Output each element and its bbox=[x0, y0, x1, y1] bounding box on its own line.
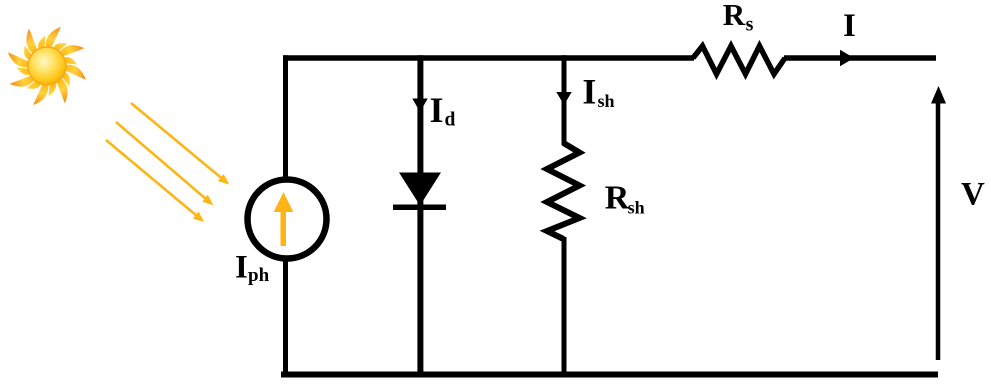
diode branch wire bbox=[417, 55, 423, 377]
svg-text:ph: ph bbox=[248, 265, 270, 286]
svg-text:sh: sh bbox=[598, 91, 615, 111]
svg-text:V: V bbox=[961, 176, 985, 212]
sun bbox=[8, 27, 86, 105]
sunlight ray arrow 3 bbox=[106, 140, 204, 222]
V arrowhead bbox=[931, 86, 946, 104]
Id arrowhead bbox=[412, 99, 427, 113]
svg-text:s: s bbox=[746, 14, 754, 36]
Ish arrowhead bbox=[556, 92, 571, 105]
left vertical wire upper bbox=[283, 55, 288, 181]
shunt branch wire lower bbox=[562, 237, 567, 378]
Iph orange arrow bbox=[274, 192, 294, 246]
svg-text:I: I bbox=[843, 8, 856, 44]
bottom wire bbox=[281, 372, 938, 378]
left vertical wire lower bbox=[283, 257, 288, 378]
svg-text:I: I bbox=[235, 250, 248, 286]
svg-text:R: R bbox=[723, 0, 746, 32]
sunlight ray arrow 2 bbox=[116, 122, 213, 205]
wire: top rail left segment (node between Iph, diode, Rsh and Rs) bbox=[283, 55, 694, 61]
V arrow line bbox=[936, 101, 941, 360]
svg-text:I: I bbox=[430, 90, 444, 130]
resistor Rs zigzag bbox=[693, 46, 785, 74]
svg-text:R: R bbox=[605, 180, 630, 217]
resistor Rsh zigzag bbox=[547, 143, 580, 239]
diode D bbox=[399, 173, 441, 206]
svg-text:I: I bbox=[582, 71, 596, 111]
current I arrowhead bbox=[840, 50, 854, 67]
current source Iph circle bbox=[248, 180, 327, 259]
shunt branch wire upper bbox=[562, 55, 567, 145]
svg-text:sh: sh bbox=[628, 197, 645, 217]
sunlight ray arrow 1 bbox=[131, 103, 229, 185]
diode cathode bar bbox=[393, 205, 446, 211]
wire: top rail right segment (output node to terminal) bbox=[784, 55, 936, 61]
svg-text:d: d bbox=[445, 110, 456, 131]
